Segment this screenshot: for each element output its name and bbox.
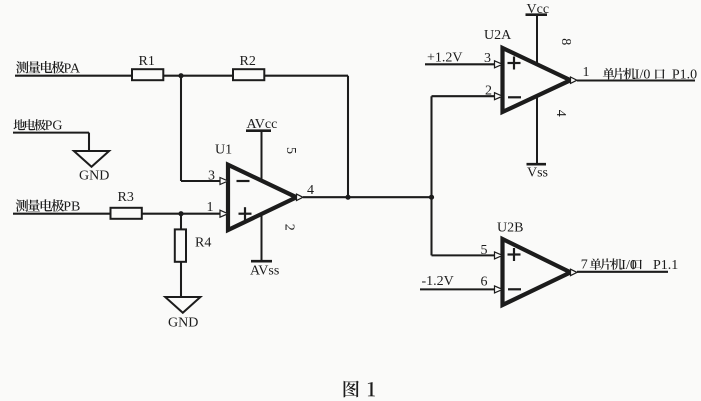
svg-text:3: 3: [208, 169, 215, 184]
U2B pin 6 arrow: [495, 286, 503, 293]
wire PG down to ground: [88, 133, 90, 151]
wire R4 to ground: [180, 262, 182, 297]
power AVcc: [246, 117, 277, 181]
net label PB: 测量电极PB: [16, 199, 81, 214]
node A junction: [178, 73, 183, 78]
U1 pin 3 arrow: [220, 178, 228, 185]
svg-text:U2B: U2B: [497, 221, 523, 236]
svg-text:8: 8: [558, 38, 573, 45]
net label PA: 测量电极PA: [16, 61, 81, 76]
svg-text:6: 6: [481, 275, 488, 290]
svg-text:R1: R1: [139, 54, 155, 69]
caption 图 1: [344, 381, 375, 398]
U2A pin 2 arrow: [495, 93, 503, 100]
svg-text:P1.1: P1.1: [653, 258, 678, 273]
svg-text:R2: R2: [240, 54, 256, 69]
wire PG: [13, 132, 89, 134]
resistor R2: [233, 54, 264, 80]
svg-text:PG: PG: [45, 119, 63, 134]
svg-text:2: 2: [281, 224, 296, 231]
wire node B to R4: [180, 214, 182, 230]
U1 pin 1 arrow: [220, 210, 228, 217]
power Vss: [527, 96, 549, 181]
resistor R1: [132, 54, 163, 80]
power Vcc: [526, 2, 550, 65]
wire U2B output: [577, 271, 668, 273]
power AVss: [250, 214, 279, 279]
svg-text:2: 2: [485, 84, 492, 99]
op-amp U1: [215, 143, 297, 231]
wire R2 to feedback corner: [264, 75, 348, 77]
svg-text:+1.2V: +1.2V: [427, 51, 463, 66]
comparator U2B: [497, 221, 571, 306]
U1 pin 4 output arrow: [297, 194, 304, 200]
wire to U2A pin 2: [432, 95, 495, 97]
net label 单片机I/0 口 P1.0: [603, 67, 697, 82]
wire R1 to node A: [163, 75, 181, 77]
wire feedback vertical: [347, 76, 349, 198]
wire PB input: [13, 213, 110, 215]
svg-text:5: 5: [283, 147, 298, 154]
wire node A to R2: [181, 75, 233, 77]
wire to U2B pin 5: [432, 254, 495, 256]
wire node D down: [430, 197, 432, 255]
ground GND1: [74, 151, 109, 184]
node C junction: [345, 195, 350, 200]
wire to U1 pin 3: [181, 180, 220, 182]
svg-text:P1.0: P1.0: [672, 67, 697, 82]
net label PG: 地电极PG: [14, 119, 63, 134]
wire node D up: [430, 96, 432, 197]
U2B pin 5 arrow: [495, 252, 503, 259]
U2A output arrow: [571, 77, 578, 83]
U2A pin 3 arrow: [495, 61, 503, 68]
wire node C to node D: [348, 196, 432, 198]
wire node B to U1 pin 1: [181, 213, 220, 215]
svg-text:PB: PB: [63, 200, 80, 215]
svg-text:7: 7: [581, 258, 588, 273]
wire node A down to pin 3 level: [180, 76, 182, 181]
U2B output arrow: [571, 269, 578, 275]
svg-text:4: 4: [553, 110, 568, 117]
wire -1.2V to U2B pin 6: [420, 288, 495, 290]
node B junction: [178, 211, 183, 216]
svg-text:PA: PA: [64, 61, 82, 76]
svg-text:Vcc: Vcc: [527, 2, 550, 17]
svg-text:3: 3: [484, 51, 491, 66]
node D junction: [429, 195, 434, 200]
svg-text:I/0: I/0: [635, 67, 651, 82]
svg-text:1: 1: [583, 65, 590, 80]
svg-text:5: 5: [481, 243, 488, 258]
wire U1 output: [303, 196, 348, 198]
net label 单片机I/0口 P1.1: [590, 258, 679, 273]
svg-text:R4: R4: [195, 236, 211, 251]
ground GND2: [165, 297, 200, 331]
svg-text:R3: R3: [118, 190, 134, 205]
wire R3 to node B: [142, 213, 181, 215]
svg-text:AVcc: AVcc: [247, 117, 278, 132]
svg-text:U2A: U2A: [484, 28, 512, 43]
svg-text:GND: GND: [79, 169, 109, 184]
wire +1.2V to U2A pin 3: [425, 63, 495, 65]
svg-text:4: 4: [307, 183, 314, 198]
svg-text:Vss: Vss: [527, 165, 548, 180]
svg-text:AVss: AVss: [250, 264, 279, 279]
svg-text:-1.2V: -1.2V: [422, 274, 454, 289]
svg-text:1: 1: [207, 200, 214, 215]
comparator U2A: [484, 28, 571, 112]
wire U2A output: [577, 79, 695, 81]
svg-text:U1: U1: [215, 143, 232, 158]
svg-text:I/0: I/0: [621, 258, 637, 273]
svg-text:GND: GND: [168, 316, 198, 331]
wire PA input: [15, 75, 132, 77]
resistor R3: [111, 190, 142, 219]
resistor R4: [175, 229, 212, 261]
